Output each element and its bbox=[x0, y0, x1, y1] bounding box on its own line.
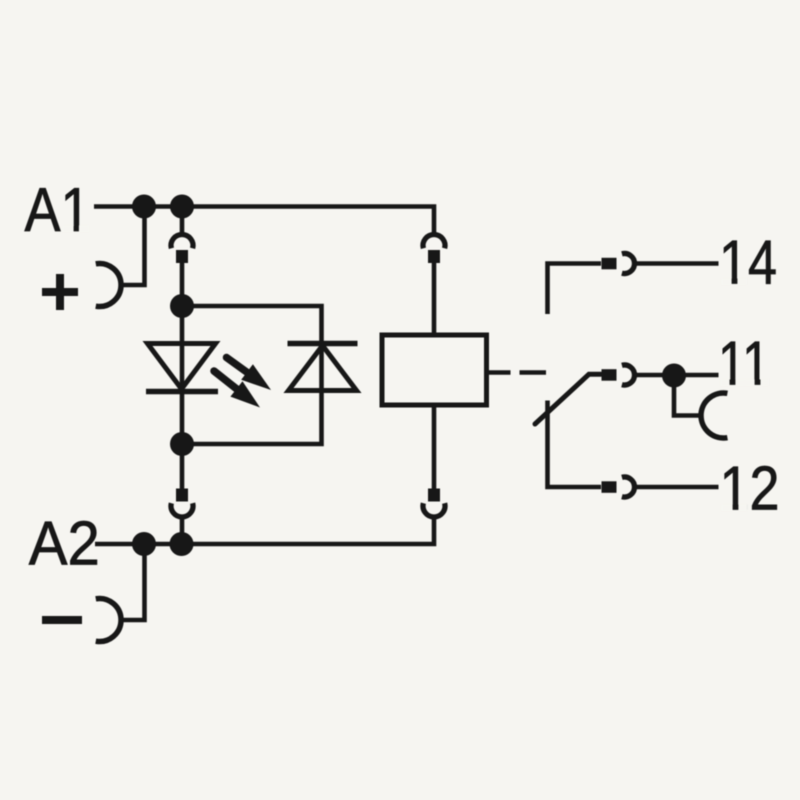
wire from right A1 dot down to disconnect bbox=[180, 207, 185, 234]
svg-text:14: 14 bbox=[719, 229, 777, 298]
clamp terminal for - (cage clamp arc) bbox=[96, 599, 121, 642]
mechanical link dashed line from coil to contact bbox=[487, 370, 547, 375]
NC fixed contact line to terminal 12 bbox=[548, 401, 602, 488]
disconnect plug pin (12) bbox=[602, 481, 617, 493]
disconnect plug pin (coil branch bottom) bbox=[428, 489, 440, 502]
svg-text:A2: A2 bbox=[29, 510, 100, 579]
node junction dot LED box top bbox=[170, 294, 194, 318]
wire relay coil bottom to plug bbox=[432, 405, 437, 489]
disconnect plug pin (coil branch top) bbox=[428, 250, 440, 263]
LED D1 cathode bar bbox=[146, 389, 218, 395]
wire parallel diode loop bbox=[182, 306, 322, 444]
disconnect plug pin (LED branch top) bbox=[176, 250, 188, 263]
glyph foot erasure patches (background colored) bbox=[62, 225, 769, 511]
wire plug to relay coil bbox=[432, 262, 437, 335]
changeover contact arm (moving contact) bbox=[535, 374, 601, 424]
disconnect plug pin (LED branch bottom) bbox=[176, 489, 188, 502]
disconnect socket (coil branch bottom) bbox=[423, 503, 445, 517]
LED light arrow 1 bbox=[227, 358, 272, 391]
wire socket to label 14 bbox=[635, 261, 719, 266]
polarity label - bbox=[42, 616, 82, 624]
LED light arrow 2 bbox=[214, 371, 260, 408]
disconnect plug pin (11) bbox=[602, 369, 617, 381]
svg-text:11: 11 bbox=[718, 330, 770, 399]
wire plug to LED box node bbox=[180, 262, 185, 306]
disconnect socket (11) bbox=[622, 365, 635, 385]
disconnect socket (14) bbox=[622, 254, 635, 274]
svg-text:A1: A1 bbox=[25, 176, 91, 245]
clamp terminal for 11 (cage clamp arc) bbox=[701, 393, 727, 438]
node junction dot on A2 rail (right) bbox=[170, 532, 194, 556]
node junction dot on A2 rail (left) bbox=[132, 532, 156, 556]
wire socket to A2 rail bbox=[180, 517, 185, 544]
suppressor diode triangle bbox=[289, 346, 357, 391]
wire LED vertical branch bbox=[180, 306, 185, 444]
wire A2 rail bbox=[95, 518, 434, 544]
clamp terminal for + (cage clamp arc) bbox=[96, 264, 121, 307]
node junction dot on A1 rail (left) bbox=[132, 195, 156, 219]
polarity label + bbox=[42, 274, 78, 310]
disconnect socket (coil branch top) bbox=[423, 235, 445, 249]
wire from left A2 dot down to - clamp bbox=[121, 544, 145, 620]
wire LED box bottom to plug bbox=[180, 444, 185, 489]
wire A1 rail from label to relay-coil branch corner bbox=[94, 207, 434, 234]
disconnect plug pin (14) bbox=[602, 258, 617, 270]
wire socket to label 12 bbox=[635, 485, 719, 490]
disconnect socket (12) bbox=[622, 477, 635, 497]
node junction dot on 11 wire bbox=[662, 364, 686, 388]
disconnect socket (LED branch top) bbox=[171, 235, 193, 249]
wire socket to label 11 bbox=[635, 373, 719, 378]
node junction dot LED box bottom bbox=[170, 432, 194, 456]
svg-text:12: 12 bbox=[720, 455, 780, 524]
suppressor diode cathode bar bbox=[288, 341, 358, 347]
wire 11 dot down to clamp bbox=[674, 376, 700, 416]
relay coil K1 bbox=[382, 335, 487, 405]
node junction dot on A1 rail (right) bbox=[170, 195, 194, 219]
disconnect socket (LED branch bottom) bbox=[171, 503, 193, 517]
wire from left A1 dot down to + clamp bbox=[121, 207, 145, 286]
NO fixed contact line to terminal 14 bbox=[548, 264, 602, 315]
LED D1 triangle bbox=[148, 344, 216, 390]
